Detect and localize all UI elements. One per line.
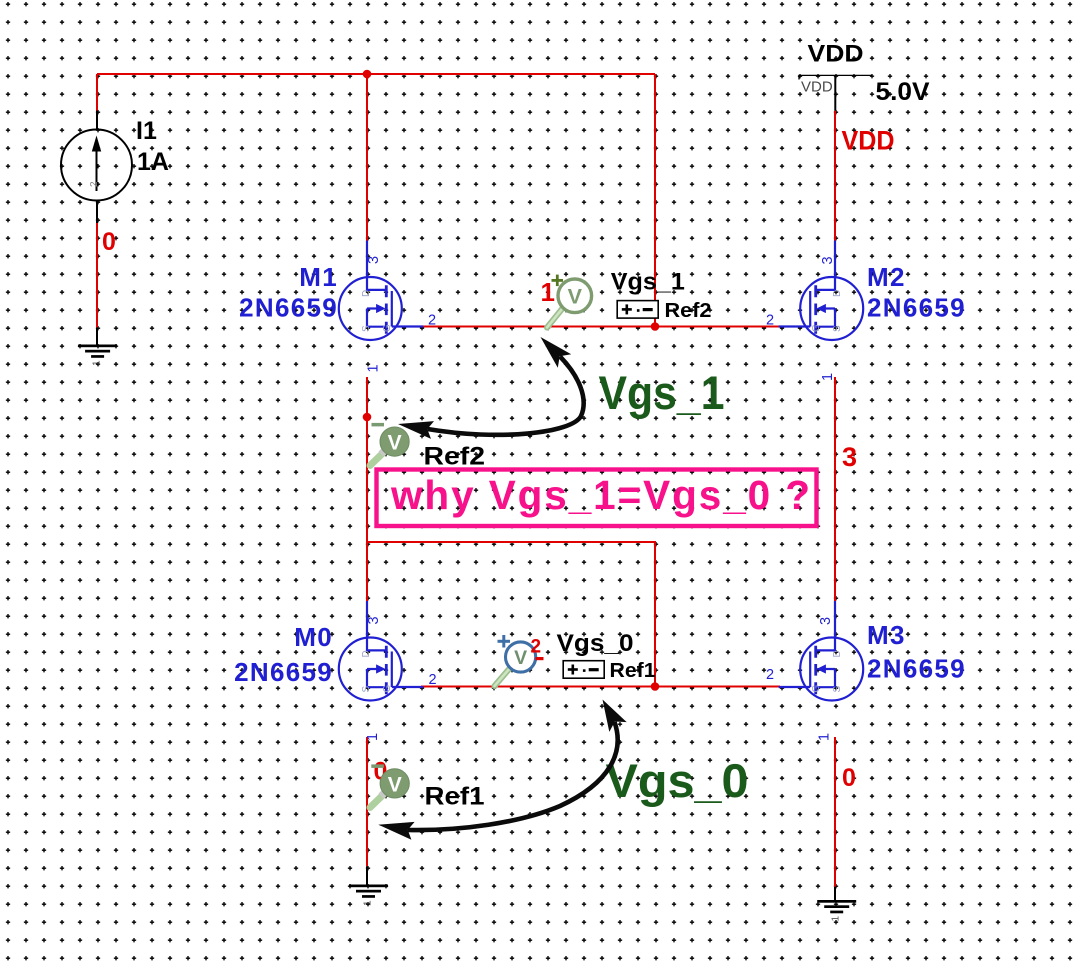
svg-text:G: G (811, 685, 822, 693)
svg-text:S: S (361, 325, 372, 332)
svg-text:3: 3 (366, 616, 382, 624)
svg-text:S: S (361, 686, 372, 693)
svg-text:2N6659: 2N6659 (234, 657, 333, 687)
svg-text:2: 2 (531, 637, 542, 658)
svg-text:3: 3 (820, 256, 836, 264)
svg-text:Vgs_1: Vgs_1 (599, 366, 725, 419)
svg-text:0: 0 (842, 764, 856, 792)
svg-text:Ref2: Ref2 (665, 300, 712, 322)
svg-text:S: S (832, 686, 843, 693)
svg-text:M0: M0 (294, 622, 333, 652)
svg-text:G: G (811, 324, 822, 332)
svg-text:M3: M3 (867, 620, 906, 650)
svg-text:V: V (388, 773, 402, 796)
svg-text:D: D (832, 290, 843, 297)
svg-text:2: 2 (766, 667, 774, 683)
svg-text:1: 1 (817, 733, 833, 741)
svg-text:Vgs_0: Vgs_0 (557, 630, 634, 657)
svg-text:1A: 1A (137, 148, 169, 176)
svg-text:M1: M1 (299, 262, 338, 292)
svg-text:V: V (388, 432, 402, 455)
svg-text:2: 2 (89, 181, 100, 187)
svg-text:I1: I1 (136, 117, 157, 145)
svg-text:1: 1 (365, 733, 381, 741)
svg-text:Vgs_0: Vgs_0 (606, 754, 749, 807)
svg-text:G: G (382, 324, 393, 332)
svg-text:Ref1: Ref1 (425, 783, 485, 811)
svg-text:VDD: VDD (808, 41, 864, 68)
svg-text:5.0V: 5.0V (876, 78, 930, 106)
svg-text:0: 0 (102, 228, 116, 256)
svg-text:V: V (514, 647, 527, 669)
svg-text:2: 2 (766, 313, 774, 329)
svg-text:D: D (361, 290, 372, 297)
svg-text:D: D (361, 650, 372, 657)
svg-text:M2: M2 (867, 262, 906, 292)
svg-text:Vgs_1: Vgs_1 (611, 269, 685, 296)
svg-text:1: 1 (366, 364, 382, 372)
svg-text:why Vgs_1=Vgs_0 ?: why Vgs_1=Vgs_0 ? (390, 472, 810, 518)
svg-text:3: 3 (842, 442, 857, 472)
svg-text:D: D (832, 650, 843, 657)
svg-text:3: 3 (818, 617, 834, 625)
svg-text:Ref1: Ref1 (610, 660, 656, 682)
svg-text:3: 3 (366, 256, 382, 264)
svg-text:Ref2: Ref2 (424, 443, 486, 471)
svg-text:S: S (832, 325, 843, 332)
svg-text:2N6659: 2N6659 (239, 293, 338, 323)
svg-text:G: G (382, 685, 393, 693)
svg-text:VDD: VDD (801, 79, 833, 96)
svg-text:2: 2 (428, 313, 436, 329)
svg-text:2N6659: 2N6659 (867, 293, 966, 323)
svg-text:VDD: VDD (842, 126, 895, 156)
svg-text:1: 1 (820, 373, 836, 381)
svg-text:2: 2 (429, 672, 437, 688)
svg-text:V: V (568, 285, 583, 309)
svg-text:2N6659: 2N6659 (867, 654, 966, 684)
